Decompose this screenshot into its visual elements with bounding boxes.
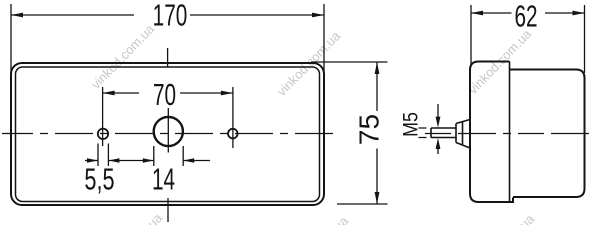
dimension 70 arrow right: [221, 91, 233, 96]
svg-text:70: 70: [153, 77, 176, 112]
dimension 14 extension line right: [182, 146, 184, 166]
dimension 5.5 extension line left: [97, 144, 99, 167]
dimension 75 extension line bottom: [337, 203, 388, 205]
side view lens/body boundary line: [509, 62, 511, 203]
front view outer outline: [11, 63, 324, 205]
dimension 62 arrow left: [471, 11, 483, 16]
hole diameter 5.5 circle left: [98, 129, 108, 139]
M5 stud boss trapezoid: [456, 120, 470, 149]
dimension text 62: [514, 0, 537, 34]
dimension text 14: [152, 161, 175, 196]
dimension 75 line: [376, 62, 378, 204]
top center tick: [167, 48, 169, 68]
side view lens outline: [470, 62, 513, 203]
shared arrow line between 5.5 and 14: [108, 160, 153, 162]
dimension 70 extension line right (hole centerline): [232, 87, 234, 148]
watermark bottom left fragment: [96, 210, 166, 240]
svg-text:M5: M5: [399, 112, 423, 137]
dimension 170 line: [11, 14, 324, 16]
dimension text 75 (rotated): [354, 114, 385, 145]
M5 dimension arrow bottom: [437, 146, 439, 155]
watermark row top left: [88, 21, 158, 92]
dimension 70 line: [103, 92, 233, 94]
hole diameter 14 circle: [154, 117, 183, 146]
front view inner outline: [16, 67, 320, 202]
dimension text 70: [153, 77, 176, 112]
vertical centerline of 14 hole: [167, 108, 169, 153]
bottom center tick: [167, 198, 169, 222]
svg-text:75: 75: [354, 114, 385, 145]
svg-text:170: 170: [153, 0, 188, 33]
dimension 62 extension line right: [584, 5, 586, 73]
dimension text 170: [153, 0, 188, 33]
dimension 170 arrow left: [11, 13, 23, 18]
dimension 170 extension line left: [10, 4, 12, 80]
watermark bottom right fragment: [468, 211, 538, 240]
dimension 5.5 arrow line left: [85, 160, 98, 162]
svg-text:14: 14: [152, 161, 175, 196]
dimension text 5,5: [84, 162, 114, 197]
svg-text:62: 62: [514, 0, 537, 34]
hole circle right: [228, 129, 238, 139]
horizontal centerline front view: [2, 133, 339, 135]
dimension text M5 (rotated): [399, 112, 423, 137]
side view centerline: [425, 133, 595, 135]
dimension 62 arrow right: [573, 11, 585, 16]
M5 thread extension marks: [419, 128, 427, 138]
dimension 75 extension line top: [311, 61, 388, 63]
dimension 14 extension line left: [153, 146, 155, 166]
dimension 14 arrow line right: [183, 160, 210, 162]
watermark row top middle: [274, 28, 344, 99]
dimension 75 arrow bottom: [375, 192, 380, 204]
M5 stud outline: [431, 128, 456, 138]
side view body outline: [510, 70, 585, 198]
dimension 70 arrow left: [103, 91, 115, 96]
watermark bottom middle fragment: [282, 213, 352, 240]
dimension 75 arrow top: [375, 62, 380, 74]
dimension 62 line: [471, 12, 585, 14]
svg-text:5,5: 5,5: [84, 162, 114, 197]
dimension 62 extension line left: [470, 5, 472, 66]
dimension 70 extension line left (hole centerline): [102, 87, 104, 146]
dimension 5.5 extension line right: [107, 144, 109, 167]
dimension 170 extension line right: [323, 4, 325, 80]
watermark row top right: [465, 26, 535, 97]
M5 dimension arrow top: [437, 104, 439, 120]
dimension 170 arrow right: [312, 13, 324, 18]
